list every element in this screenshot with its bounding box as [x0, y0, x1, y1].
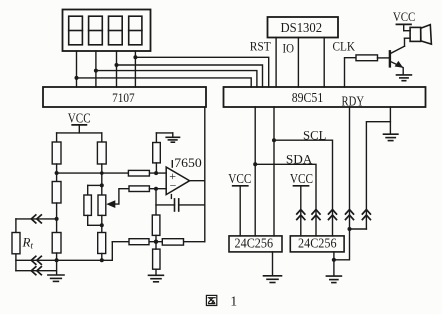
- capacitor C1: [156, 204, 175, 206]
- resistor R plus: [128, 170, 149, 176]
- ground (fb): [149, 275, 164, 282]
- node line4/line5: [348, 227, 352, 231]
- resistor RA3: [52, 233, 61, 254]
- svg-text:Rt: Rt: [22, 235, 34, 251]
- chevrons VCC2 line: [297, 210, 305, 220]
- node seg1 bus: [75, 76, 79, 80]
- wire jog ground to line5: [366, 122, 390, 229]
- IC 7107: [43, 87, 206, 107]
- wire pot left drop: [87, 185, 89, 195]
- svg-text:1: 1: [230, 294, 237, 309]
- svg-text:SCL: SCL: [303, 127, 326, 142]
- digit 4: [129, 16, 142, 45]
- wire 89C51 buzzer drive: [345, 58, 357, 87]
- transistor Q1: [390, 38, 410, 74]
- chevrons SCL: [329, 210, 337, 220]
- wire: [101, 215, 103, 232]
- wire colA to ground: [56, 253, 58, 275]
- resistor R fb-right: [162, 239, 183, 245]
- ground (89C51 right): [384, 134, 398, 140]
- wire ground branch top: [156, 132, 172, 134]
- ground (bridge left): [48, 275, 64, 281]
- wire: [56, 203, 58, 233]
- node B rail: [100, 183, 104, 187]
- resistor R pot-left: [84, 195, 92, 215]
- wire display seg1 to 7107: [76, 51, 78, 87]
- digit 3: [109, 16, 123, 45]
- resistor R minus: [129, 186, 149, 192]
- chevrons bottom line: [31, 256, 41, 264]
- resistor RA1: [52, 142, 61, 164]
- node B bottom: [100, 258, 104, 262]
- chevrons Rt bottom: [31, 267, 41, 275]
- wire top rail: [57, 132, 102, 134]
- resistor RB1: [97, 142, 106, 164]
- chevrons line4: [346, 210, 354, 220]
- wire: [155, 242, 157, 249]
- node pot bottom: [100, 223, 104, 227]
- wire bottom line: [16, 259, 112, 261]
- svg-text:VCC: VCC: [228, 171, 251, 186]
- svg-text:VCC: VCC: [393, 10, 416, 24]
- svg-text:−: −: [170, 179, 177, 193]
- chevrons SDA: [312, 210, 320, 220]
- digit 2: [89, 16, 103, 45]
- ground (emitter): [397, 75, 412, 81]
- IC 24C256 #1: [229, 236, 282, 252]
- wire colB top: [101, 133, 103, 142]
- svg-text:89C51: 89C51: [292, 90, 324, 105]
- resistor RA2: [52, 182, 61, 204]
- wire bus line2 to 89C51: [117, 65, 263, 87]
- wire: [155, 163, 157, 173]
- resistor R below-center: [153, 249, 160, 269]
- op-amp U 7650: [166, 167, 189, 195]
- wire display seg4 to 7107: [134, 51, 136, 87]
- node ground join: [332, 258, 336, 262]
- node SDA branch: [253, 162, 257, 166]
- node minus: [154, 187, 158, 191]
- node SCL branch: [272, 138, 276, 142]
- wire: [101, 164, 103, 195]
- wire pot top rail: [88, 184, 102, 186]
- wire output feedback rail: [204, 107, 206, 242]
- node A mid: [55, 171, 59, 175]
- wire DS1302 CLK: [323, 38, 325, 88]
- node seg4 bus: [133, 55, 137, 59]
- wire bus line4 to 89C51: [77, 78, 252, 87]
- wire bus line3 to 89C51: [96, 71, 257, 87]
- wire SDA to eeprom2: [255, 164, 316, 236]
- ground (eeprom2): [326, 276, 341, 283]
- wire colB bottom: [101, 254, 103, 261]
- svg-text:24C256: 24C256: [235, 236, 274, 251]
- wire resistor to base: [378, 57, 390, 59]
- resistor RB3: [98, 233, 106, 254]
- wire SCL to eeprom2: [274, 140, 333, 236]
- svg-text:CLK: CLK: [333, 39, 356, 54]
- speaker LS1: [410, 27, 421, 41]
- resistor R base: [356, 55, 378, 61]
- potentiometer wiper arrow: [112, 189, 129, 204]
- wire: [56, 164, 58, 182]
- resistor R ref: [153, 143, 161, 163]
- thermistor Rt branch: [15, 219, 17, 233]
- ground (eeprom1): [264, 276, 282, 283]
- wire eeprom2 to ground: [333, 252, 335, 276]
- wire minus line: [149, 188, 166, 190]
- resistor Rt: [12, 233, 20, 254]
- wire display seg2 to 7107: [95, 51, 97, 87]
- svg-text:24C256: 24C256: [298, 236, 337, 251]
- svg-text:DS1302: DS1302: [281, 20, 323, 35]
- node seg2 bus: [94, 69, 98, 73]
- node feedback center: [154, 240, 158, 244]
- wire: [155, 133, 157, 143]
- wire DS1302 IO: [297, 38, 299, 88]
- wire eeprom1 to ground: [272, 252, 274, 276]
- wire minus column: [155, 189, 157, 215]
- wire pot bottom rail: [88, 224, 102, 226]
- wire line5 join line4: [350, 228, 367, 230]
- resistor R pot (body): [98, 195, 106, 215]
- resistor R minus-col: [152, 215, 160, 235]
- svg-text:RST: RST: [250, 39, 271, 54]
- wire op-amp out: [190, 180, 205, 182]
- wire DS1302 RST: [275, 38, 277, 88]
- ground (ref top): [166, 137, 179, 142]
- wire 89C51 SDA line: [254, 107, 256, 236]
- node A bottom: [55, 258, 59, 262]
- node B plus: [100, 171, 104, 175]
- svg-text:SDA: SDA: [286, 151, 313, 166]
- wire 89C51 to ground right: [389, 107, 391, 134]
- svg-text:7107: 7107: [112, 90, 135, 105]
- digit 1: [69, 16, 83, 45]
- node A rt-top: [55, 217, 59, 221]
- svg-text:RDY: RDY: [342, 93, 365, 108]
- IC 24C256 #2: [290, 236, 344, 252]
- wire 89C51 SCL line: [273, 107, 275, 236]
- IC 89C51: [224, 87, 426, 107]
- wire Rt bottom to ground: [16, 270, 57, 272]
- svg-text:IO: IO: [282, 40, 294, 55]
- IC DS1302: [268, 17, 339, 38]
- wire Rt top: [16, 218, 57, 220]
- wire display seg3 to 7107: [116, 51, 118, 87]
- resistor R fb-left: [129, 239, 149, 245]
- node plus mid: [154, 171, 158, 175]
- wire 89C51 line4 down: [334, 107, 350, 260]
- caption figure 1: [206, 294, 237, 309]
- wire colA top: [56, 133, 58, 142]
- wire plus line: [57, 172, 167, 174]
- wire fb drop: [111, 242, 113, 261]
- wire bus line1 to 89C51: [135, 57, 268, 87]
- wire feedback row: [112, 241, 205, 243]
- svg-text:VCC: VCC: [290, 171, 313, 186]
- chevrons line5: [362, 210, 370, 220]
- chevrons Rt top: [31, 215, 41, 223]
- node seg3 bus: [115, 63, 119, 67]
- display DS (4-digit 7-seg) outer box: [63, 10, 151, 52]
- wire: [87, 215, 89, 225]
- svg-text:7650: 7650: [174, 156, 202, 170]
- wire: [155, 235, 157, 241]
